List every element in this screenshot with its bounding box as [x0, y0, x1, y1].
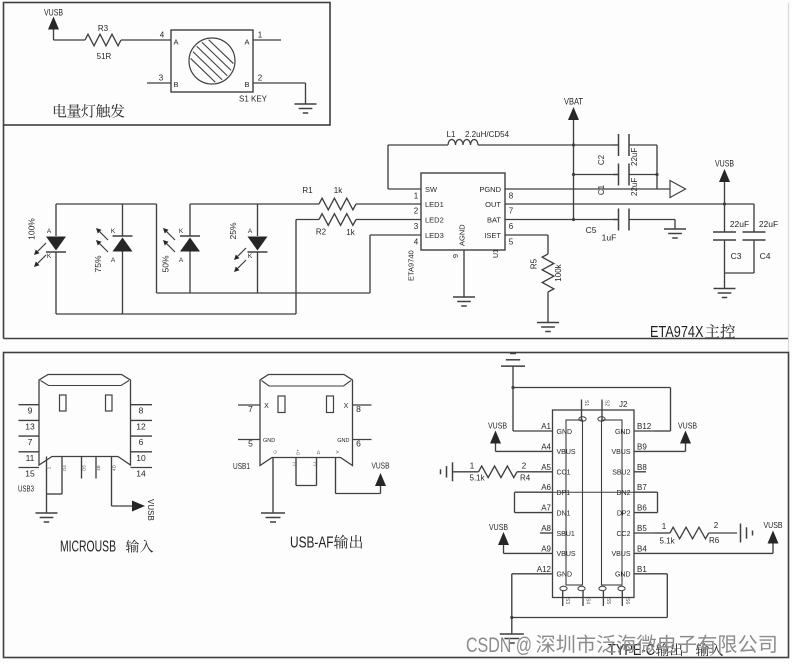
- svg-text:SBU1: SBU1: [557, 531, 575, 538]
- svg-text:(-): (-): [313, 461, 318, 466]
- resistor R1 1k: [319, 198, 356, 210]
- svg-text:V: V: [335, 450, 340, 453]
- svg-text:CC2: CC2: [616, 531, 630, 538]
- svg-text:VBUS: VBUS: [611, 551, 630, 558]
- svg-text:J2: J2: [619, 400, 628, 409]
- ground (top-left box): [295, 103, 317, 105]
- op-chip U1 ETA9740: [421, 173, 505, 250]
- svg-text:A7: A7: [541, 504, 551, 513]
- ground (USB3): [36, 512, 58, 514]
- svg-text:D5: D5: [82, 465, 87, 471]
- svg-text:VBUS: VBUS: [557, 449, 576, 456]
- svg-text:14: 14: [136, 469, 146, 479]
- svg-text:B: B: [244, 80, 249, 89]
- capacitor C2 22uF: [613, 144, 619, 146]
- J2 pin A6 DP1: [532, 491, 553, 493]
- svg-text:C3: C3: [731, 251, 742, 261]
- wire SW pin1 to L1: [388, 188, 421, 190]
- svg-text:1: 1: [662, 522, 667, 531]
- wire BAT pin6 to C5: [505, 219, 619, 221]
- J2 pin A8 SBU1: [540, 532, 553, 534]
- wire A6-A7 loop: [515, 491, 533, 493]
- svg-text:K: K: [47, 253, 52, 260]
- capacitor C3 22uF: [713, 231, 736, 233]
- svg-text:A5: A5: [541, 463, 551, 472]
- USB3 pin 13 (left): [19, 419, 40, 421]
- svg-text:GND: GND: [337, 438, 349, 444]
- svg-text:ETA9740: ETA9740: [407, 250, 416, 281]
- svg-text:7: 7: [509, 207, 514, 216]
- svg-text:DN2: DN2: [616, 490, 630, 497]
- svg-text:ISET: ISET: [484, 231, 501, 240]
- LED D4 25%: [257, 204, 259, 236]
- svg-text:ETA974X: ETA974X: [650, 324, 704, 341]
- svg-text:GND: GND: [615, 572, 631, 579]
- svg-text:OUT: OUT: [485, 200, 501, 209]
- wire ISET pin5 to R5: [505, 234, 548, 236]
- J2 pin B5 CC2: [634, 532, 655, 534]
- J2 pin B12 GND: [634, 430, 655, 432]
- USB3 pin 10 (right): [131, 451, 153, 453]
- svg-text:S5: S5: [605, 598, 611, 604]
- svg-text:6: 6: [356, 439, 361, 449]
- J2 pin A4 VBUS: [532, 450, 553, 452]
- svg-text:R4: R4: [520, 474, 531, 483]
- svg-text:7: 7: [248, 404, 253, 414]
- svg-text:DP2: DP2: [617, 510, 631, 517]
- ground (USB1): [261, 512, 285, 514]
- svg-text:DN1: DN1: [557, 510, 571, 517]
- USB3 slot left: [60, 395, 67, 411]
- svg-text:13: 13: [25, 421, 35, 431]
- svg-text:12: 12: [136, 421, 146, 431]
- wire LED bottom net (pin3 net via R2): [56, 313, 296, 315]
- svg-text:5: 5: [248, 439, 253, 449]
- svg-text:A6: A6: [541, 483, 551, 492]
- svg-text:5.1k: 5.1k: [660, 537, 676, 546]
- svg-text:8: 8: [356, 404, 361, 414]
- J2 pin A5 CC1: [532, 471, 553, 473]
- svg-text:VUSB: VUSB: [146, 499, 155, 521]
- svg-text:C5: C5: [586, 225, 597, 235]
- svg-text:51R: 51R: [97, 52, 112, 61]
- sideways ground (R4): [452, 462, 454, 481]
- svg-text:LED3: LED3: [425, 231, 444, 240]
- svg-text:X: X: [344, 403, 349, 410]
- svg-text:S4: S4: [585, 598, 591, 604]
- svg-text:D+: D+: [296, 449, 301, 455]
- svg-text:VBUS: VBUS: [611, 449, 630, 456]
- svg-text:A: A: [179, 257, 184, 264]
- svg-text:50%: 50%: [161, 255, 171, 272]
- J2 pin B4 VBUS: [634, 552, 655, 554]
- svg-text:2: 2: [414, 207, 419, 216]
- svg-text:B4: B4: [637, 544, 647, 553]
- svg-text:A: A: [248, 228, 253, 235]
- svg-text:VUSB: VUSB: [489, 522, 508, 532]
- J2 slot left: [566, 420, 583, 585]
- LED D1 100%: [55, 204, 57, 236]
- wire VCC to VUSB arrow: [112, 505, 134, 507]
- middle section bottom border: [4, 338, 789, 340]
- svg-text:VBUS: VBUS: [557, 551, 576, 558]
- wire B7-B6 loop: [655, 491, 658, 493]
- svg-text:4D: 4D: [112, 464, 117, 471]
- USB3 pin 8 (right): [131, 404, 153, 406]
- svg-text:22uF: 22uF: [630, 178, 639, 196]
- USB3 slot right: [106, 395, 113, 411]
- svg-text:1: 1: [414, 192, 419, 201]
- svg-text:22uF: 22uF: [730, 219, 749, 229]
- svg-text:S1: S1: [583, 400, 589, 406]
- USB-AF connector USB1 body: [260, 375, 353, 466]
- switch S1 KEY: [171, 30, 253, 92]
- svg-text:1: 1: [258, 31, 263, 40]
- svg-text:A9: A9: [541, 544, 551, 553]
- svg-text:S6: S6: [624, 598, 630, 604]
- svg-text:6: 6: [509, 222, 514, 231]
- wire PGND pin8: [505, 188, 670, 190]
- svg-text:S3: S3: [564, 598, 570, 604]
- svg-text:R1: R1: [302, 186, 313, 195]
- svg-text:LED1: LED1: [425, 200, 444, 209]
- USB1 pin 7: [238, 404, 260, 406]
- wire S1 pin 2 to ground: [253, 82, 306, 84]
- svg-text:1k: 1k: [346, 228, 355, 237]
- svg-text:GND: GND: [557, 572, 573, 579]
- USB1 pin 6: [353, 439, 372, 441]
- svg-text:B9: B9: [637, 442, 647, 451]
- svg-text:USB-AF: USB-AF: [290, 535, 334, 552]
- svg-text:25%: 25%: [228, 222, 238, 239]
- wire L1 to VBAT node: [478, 144, 613, 146]
- svg-text:K: K: [111, 228, 116, 235]
- USB3 bottom pin stubs: [46, 457, 48, 495]
- svg-text:R5: R5: [530, 258, 539, 269]
- wire A1 to ground stem: [513, 430, 532, 432]
- wire VUSB to R3: [54, 39, 86, 41]
- LED D2 75%: [122, 204, 124, 236]
- svg-text:A1: A1: [541, 422, 551, 431]
- svg-text:8: 8: [139, 406, 144, 416]
- resistor R2 1k: [319, 214, 356, 226]
- ground (C3/C4): [714, 288, 736, 290]
- svg-text:USB1: USB1: [233, 462, 250, 471]
- USB3 pin 12 (right): [131, 419, 153, 421]
- svg-text:6: 6: [139, 437, 144, 447]
- wire LED top net (pin4 net): [56, 203, 157, 205]
- bottom section box: [4, 353, 789, 658]
- J2 pin B1 GND: [634, 573, 655, 575]
- USB1 slot left: [278, 396, 285, 413]
- J2 pin B9 VBUS: [634, 450, 655, 452]
- S1 pin 3 stub: [147, 82, 171, 84]
- USB3 pin 11 (left): [19, 451, 40, 453]
- J2 DP1-DN2 cross line: [553, 491, 635, 493]
- sideways ground (R6): [740, 524, 742, 543]
- svg-text:4: 4: [160, 31, 165, 40]
- svg-text:9: 9: [28, 406, 33, 416]
- svg-text:10: 10: [136, 453, 146, 463]
- svg-text:A12: A12: [537, 565, 552, 574]
- USB1 pin 8: [353, 404, 372, 406]
- J2 top shell stubs: [581, 400, 583, 421]
- svg-text:4: 4: [414, 238, 419, 247]
- micro-USB connector USB3 body: [39, 375, 131, 466]
- inductor L1 2.2uH/CD54: [448, 140, 478, 145]
- J2 slot right: [602, 420, 623, 585]
- resistor R4 5.1k: [453, 471, 479, 473]
- svg-text:B: B: [173, 80, 178, 89]
- svg-text:2: 2: [522, 462, 527, 471]
- svg-text:B8: B8: [637, 463, 647, 472]
- svg-text:U1: U1: [493, 249, 500, 258]
- svg-text:100%: 100%: [27, 218, 37, 240]
- svg-text:7: 7: [28, 437, 33, 447]
- wire D+/D- loop: [296, 485, 317, 487]
- ground (C5): [664, 228, 686, 230]
- svg-text:C4: C4: [760, 251, 771, 261]
- ground (R5): [537, 322, 559, 324]
- svg-text:A: A: [47, 228, 52, 235]
- wire C1/C2 to PGND node: [656, 145, 658, 189]
- svg-text:3: 3: [414, 222, 419, 231]
- svg-text:2.2uH/CD54: 2.2uH/CD54: [465, 130, 510, 139]
- svg-text:GND: GND: [263, 438, 275, 444]
- resistor R6 5.1k: [655, 532, 670, 534]
- svg-text:S1 KEY: S1 KEY: [239, 95, 268, 104]
- capacitor C1 22uF: [574, 174, 619, 176]
- port triangle (PGND): [670, 181, 686, 198]
- svg-text:D-: D-: [316, 449, 321, 454]
- J2 pin A9 VBUS: [532, 552, 553, 554]
- svg-text:AGND: AGND: [458, 224, 467, 246]
- wire OUT pin7 to C4: [505, 203, 754, 205]
- svg-text:75%: 75%: [93, 255, 103, 272]
- svg-text:CSDN @: CSDN @: [466, 634, 532, 657]
- svg-text:4B: 4B: [96, 465, 101, 471]
- svg-text:SBU2: SBU2: [612, 470, 630, 477]
- svg-text:5.1k: 5.1k: [470, 474, 486, 483]
- USB1 pin 5: [238, 439, 260, 441]
- J2 pin B6 DP2: [634, 512, 655, 514]
- middle section left border: [3, 125, 5, 339]
- S1 pin 1 stub: [253, 39, 281, 41]
- svg-text:G: G: [273, 450, 278, 454]
- wire AGND pin9 to ground: [463, 250, 465, 297]
- svg-text:5: 5: [509, 238, 514, 247]
- svg-text:R2: R2: [316, 228, 327, 237]
- svg-text:VUSB: VUSB: [764, 520, 783, 530]
- svg-text:VUSB: VUSB: [372, 461, 390, 471]
- svg-text:VBAT: VBAT: [564, 97, 583, 107]
- svg-text:22uF: 22uF: [759, 219, 778, 229]
- Type-C connector J2 box: [553, 410, 635, 598]
- svg-text:9: 9: [451, 254, 460, 258]
- svg-text:X: X: [264, 403, 269, 410]
- svg-text:8: 8: [509, 192, 514, 201]
- svg-text:B6: B6: [637, 504, 647, 513]
- svg-text:A: A: [173, 38, 178, 47]
- J2 pin A7 DN1: [532, 512, 553, 514]
- wire LED3/LED4 top net to R1: [190, 203, 319, 205]
- capacitor C4 22uF: [743, 231, 766, 233]
- svg-text:DP1: DP1: [557, 490, 571, 497]
- battery-light trigger section box: [4, 3, 331, 126]
- battery-light trigger caption: [54, 104, 67, 117]
- capacitor C5 1uF: [613, 219, 619, 221]
- wire GND loop USB3: [47, 493, 63, 495]
- J2 pin B8 SBU2: [634, 471, 646, 473]
- svg-text:A: A: [111, 257, 116, 264]
- svg-text:3: 3: [159, 74, 164, 83]
- svg-text:S2: S2: [604, 400, 610, 406]
- svg-text:R6: R6: [709, 536, 720, 545]
- ground (J2 bottom): [500, 633, 524, 635]
- LED D3 50%: [189, 204, 191, 236]
- svg-text:(-): (-): [292, 461, 297, 466]
- USB1 bottom pin stubs: [272, 458, 274, 514]
- svg-text:CC1: CC1: [557, 470, 571, 477]
- ground (AGND): [453, 296, 475, 298]
- svg-text:1uF: 1uF: [602, 233, 617, 243]
- svg-text:B12: B12: [637, 422, 652, 431]
- J2 pin A12 GND: [532, 573, 553, 575]
- svg-text:D4: D4: [62, 465, 67, 471]
- svg-text:SW: SW: [425, 185, 438, 194]
- svg-text:A: A: [244, 38, 249, 47]
- USB3 pin 9 (left): [19, 404, 40, 406]
- svg-text:100k: 100k: [554, 263, 563, 281]
- svg-text:USB3: USB3: [18, 485, 34, 494]
- svg-text:GND: GND: [557, 429, 573, 436]
- svg-text:2: 2: [714, 521, 719, 530]
- resistor R5 100k: [542, 254, 554, 292]
- svg-text:1k: 1k: [334, 186, 343, 195]
- USB1 slot right: [327, 396, 334, 413]
- ground (J2 top): [510, 353, 516, 355]
- svg-text:BAT: BAT: [487, 215, 501, 224]
- svg-text:C2: C2: [597, 154, 606, 165]
- J2 pin A1 GND: [532, 430, 553, 432]
- J2 bottom shell stubs: [562, 591, 564, 607]
- USB3 pin 6 (right): [131, 435, 153, 437]
- svg-text:15: 15: [25, 469, 35, 479]
- wire A12-B1 ground loop: [512, 573, 532, 575]
- faint right border: [788, 3, 790, 353]
- svg-text:VUSB: VUSB: [44, 8, 63, 18]
- svg-text:R3: R3: [98, 24, 109, 33]
- resistor R3: [85, 34, 121, 46]
- wire VCC to VUSB arrow (USB1): [336, 493, 381, 495]
- svg-text:K: K: [179, 228, 184, 235]
- svg-text:11: 11: [26, 453, 35, 463]
- svg-text:B1: B1: [637, 565, 647, 574]
- svg-text:L1: L1: [447, 130, 456, 139]
- svg-text:B5: B5: [637, 524, 647, 533]
- svg-text:LED2: LED2: [425, 215, 444, 224]
- svg-text:VUSB: VUSB: [488, 421, 507, 431]
- USB3 pin 15 (left): [19, 467, 40, 469]
- USB3 pin 7 (left): [19, 435, 40, 437]
- svg-text:MICROUSB: MICROUSB: [60, 539, 116, 556]
- wires C3/C4 to ground: [753, 240, 755, 273]
- svg-text:A4: A4: [541, 442, 551, 451]
- svg-text:K: K: [248, 253, 253, 260]
- svg-text:2: 2: [258, 74, 263, 83]
- svg-text:22uF: 22uF: [630, 148, 639, 166]
- wire R3 to S1 pin 4: [121, 39, 171, 41]
- USB3 pin 14 (right): [131, 467, 153, 469]
- svg-text:A8: A8: [541, 524, 551, 533]
- J2 pin B7 DN2: [634, 491, 655, 493]
- svg-text:PGND: PGND: [479, 185, 501, 194]
- svg-text:GND: GND: [615, 429, 631, 436]
- svg-text:1: 1: [470, 462, 475, 471]
- svg-text:VUSB: VUSB: [715, 159, 734, 169]
- svg-text:B7: B7: [637, 483, 647, 492]
- svg-text:C1: C1: [597, 184, 606, 195]
- wire GND loop to B12: [513, 387, 671, 389]
- svg-text:VUSB: VUSB: [678, 421, 697, 431]
